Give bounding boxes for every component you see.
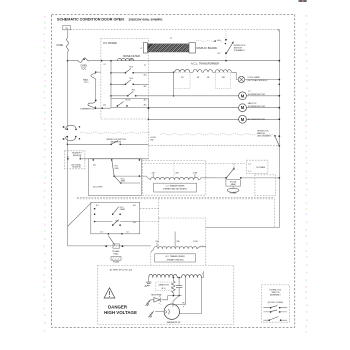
- svg-text:RY4: RY4: [129, 78, 133, 80]
- legend switch row 1: [263, 306, 287, 309]
- svg-text:FAN TOP: FAN TOP: [248, 102, 257, 105]
- svg-text:3: 3: [202, 274, 203, 276]
- svg-text:NOISE FILTER: NOISE FILTER: [123, 55, 140, 58]
- legend switch row 3: [263, 317, 287, 322]
- interlock switch secondary: [257, 130, 280, 146]
- svg-text:(MONITOR): (MONITOR): [111, 142, 122, 144]
- pin labels control box: [103, 64, 146, 106]
- svg-text:(PRIMARY AND SECONDARY): (PRIMARY AND SECONDARY): [163, 188, 187, 191]
- terminal block TB: [63, 26, 71, 30]
- relay RY101 coil: [227, 188, 239, 194]
- dashed box HV unit: [255, 175, 276, 196]
- svg-text:T.T.: T.T.: [248, 91, 252, 93]
- control unit box (noise filter): [101, 38, 149, 119]
- ground magnetron: [148, 311, 164, 317]
- relay contact RY2 row: [111, 67, 149, 74]
- border frame: [52, 14, 295, 327]
- svg-text:RY-1: RY-1: [115, 221, 119, 223]
- triac contact to HV primary: [100, 232, 128, 249]
- svg-text:ASSEMBLY: ASSEMBLY: [270, 294, 281, 297]
- wire rail to lower box: [68, 203, 91, 226]
- wire main line to interlock: [68, 60, 280, 62]
- connector squiggle upper (MAG TCO): [83, 74, 95, 85]
- watermark top mark: [299, 0, 307, 2]
- motor M2 (fan): [148, 102, 280, 112]
- svg-text:A-3: A-3: [144, 85, 147, 88]
- svg-text:RY-2: RY-2: [114, 166, 118, 168]
- svg-text:J-6: J-6: [126, 232, 128, 234]
- svg-text:J-8: J-8: [100, 232, 102, 234]
- svg-text:SW.: SW.: [150, 139, 154, 141]
- HV secondary winding: [149, 271, 204, 277]
- display board label: [197, 41, 217, 50]
- legend switch row 2: [263, 310, 287, 313]
- svg-text:AC S-PWR: AC S-PWR: [93, 185, 103, 188]
- high voltage box: [98, 265, 234, 324]
- svg-text:RY101A: RY101A: [230, 181, 237, 184]
- svg-text:208: 208: [176, 241, 179, 243]
- CH trans box: [246, 160, 268, 173]
- triac label RY-MAG: [112, 250, 120, 256]
- wire right rail: [206, 30, 279, 228]
- connector hooks on left rail: [63, 125, 80, 141]
- relay board upper box: [89, 159, 142, 196]
- cook lamp: [236, 76, 280, 85]
- svg-text:RY-16: RY-16: [125, 99, 130, 101]
- svg-text:STIRRER TCO: STIRRER TCO: [80, 109, 95, 111]
- svg-text:J-4: J-4: [248, 164, 250, 166]
- wire MAG TCO branch: [95, 71, 112, 109]
- svg-text:SCHEMATIC CONDITION DOOR OPEN: SCHEMATIC CONDITION DOOR OPEN: [57, 18, 124, 22]
- relay contact RY4 row: [111, 78, 149, 85]
- svg-text:AC VENT (H.V.) TLK-100: AC VENT (H.V.) TLK-100: [110, 268, 133, 271]
- wire bus in control box: [110, 60, 112, 98]
- svg-text:H.V. TRANSFORMER: H.V. TRANSFORMER: [166, 255, 186, 258]
- fuse F1: [57, 38, 69, 52]
- wire relay to LVT: [140, 176, 150, 180]
- relay box RY-16: [111, 98, 149, 107]
- svg-text:MODELS): MODELS): [72, 167, 81, 169]
- svg-text:A-5: A-5: [144, 99, 147, 102]
- svg-text:B-1: B-1: [96, 205, 99, 207]
- wire dashed drop from control box: [148, 108, 157, 161]
- wire relay to CH trans: [141, 163, 246, 168]
- HV transformer primary box: [151, 199, 206, 265]
- svg-text:RECTIFIER: RECTIFIER: [151, 295, 162, 297]
- svg-text:J-1: J-1: [144, 64, 147, 66]
- svg-text:J-7: J-7: [103, 64, 106, 66]
- svg-text:CH TRANS: CH TRANS: [256, 166, 266, 169]
- svg-text:TCO: TCO: [84, 82, 89, 84]
- wire display board link: [196, 40, 226, 44]
- margin dots: [43, 15, 307, 333]
- wire door linkage right: [160, 134, 274, 136]
- svg-text:OVEN: OVEN: [80, 66, 87, 68]
- relay RY101 box: [226, 180, 241, 189]
- svg-text:(SECONDARY): (SECONDARY): [257, 134, 271, 137]
- danger text: [104, 304, 137, 315]
- svg-text:J-8: J-8: [214, 41, 217, 43]
- svg-text:M: M: [241, 117, 245, 122]
- svg-text:M: M: [241, 105, 245, 110]
- motor M1 (TT stirrer): [149, 91, 281, 100]
- wire L1 top line: [70, 29, 279, 31]
- magnetron V1: [164, 278, 201, 324]
- svg-text:(NOT IN ALL MODELS): (NOT IN ALL MODELS): [247, 79, 267, 82]
- interlock switch primary: [218, 31, 281, 62]
- svg-text:CAPACITOR: CAPACITOR: [158, 284, 169, 287]
- svg-text:STIRRER MOTOR: STIRRER MOTOR: [248, 106, 266, 108]
- connector squiggle lower (cavity TCO): [80, 100, 96, 110]
- svg-text:FUSE: FUSE: [57, 44, 64, 47]
- svg-text:RY-MAIN: RY-MAIN: [230, 192, 238, 195]
- title text: [57, 18, 163, 22]
- svg-text:MAGNETRON: MAGNETRON: [167, 321, 181, 324]
- svg-text:A.C.L. TRANSFORMER: A.C.L. TRANSFORMER: [191, 61, 219, 65]
- svg-text:DANGER: DANGER: [108, 304, 128, 309]
- ribbon cable J7: [140, 38, 197, 53]
- svg-text:BLOWER MOTOR: BLOWER MOTOR: [248, 119, 266, 121]
- relay board lower box: [91, 202, 140, 234]
- node L1-TCO: [67, 60, 69, 62]
- wire left rail: [68, 30, 151, 246]
- svg-text:F: F: [183, 306, 184, 308]
- wire lower box east: [140, 209, 159, 222]
- svg-text:J-2: J-2: [248, 171, 250, 173]
- svg-text:TRIAC: TRIAC: [113, 253, 119, 256]
- svg-text:P.C. BOARD: P.C. BOARD: [103, 42, 117, 45]
- inductor noise filter coil: [118, 58, 134, 60]
- svg-text:RY-5: RY-5: [120, 207, 124, 209]
- triac coil box: [111, 257, 121, 264]
- svg-text:DISPLAY BOARD: DISPLAY BOARD: [197, 46, 217, 50]
- wire node to magnetron: [173, 296, 179, 304]
- svg-text:(PRIMARY): (PRIMARY): [234, 49, 245, 52]
- A.C.L. transformer: [149, 61, 237, 96]
- legend box: [261, 285, 289, 322]
- svg-text:(DOOR CLOSED): (DOOR CLOSED): [268, 302, 284, 304]
- svg-text:COOK LAMP: COOK LAMP: [247, 76, 260, 79]
- svg-text:J2: J2: [140, 48, 142, 50]
- motor M3 (blower): [148, 115, 281, 123]
- svg-text:208: 208: [175, 172, 178, 174]
- warning triangle: [104, 288, 115, 298]
- svg-text:A-4: A-4: [144, 74, 147, 77]
- svg-text:RY-4: RY-4: [121, 178, 125, 180]
- svg-text:COM: COM: [193, 241, 198, 243]
- svg-text:208/230V 60Hz 3/4WIRE: 208/230V 60Hz 3/4WIRE: [129, 18, 163, 22]
- svg-text:(PRIMARY WINDING): (PRIMARY WINDING): [167, 258, 184, 261]
- node HV: [151, 295, 182, 300]
- capacitor label: [156, 282, 172, 291]
- svg-text:STIRRER MOTOR: STIRRER MOTOR: [248, 94, 266, 96]
- thermal cutout OVEN TCO: [78, 58, 89, 70]
- svg-text:A-1: A-1: [103, 103, 106, 106]
- svg-text:(16M): (16M): [114, 168, 119, 170]
- node main/branch: [101, 60, 103, 62]
- capacitor C1: [176, 277, 182, 296]
- svg-text:HIGH VOLTAGE: HIGH VOLTAGE: [104, 310, 137, 315]
- svg-text:A-2: A-2: [133, 204, 136, 207]
- HV transformer label box: [155, 254, 196, 262]
- svg-text:L.V. TRANSFORMER: L.V. TRANSFORMER: [166, 185, 185, 188]
- ground HV winding: [145, 278, 152, 287]
- svg-text:MAG.: MAG.: [83, 78, 89, 81]
- bleeder resistor: [172, 277, 175, 296]
- monitor switch line: [67, 139, 280, 145]
- humidity sensor box: [65, 151, 149, 169]
- LV transformer box: [143, 161, 227, 196]
- wire door linkage left: [80, 132, 150, 133]
- svg-text:(H.V.): (H.V.): [161, 288, 166, 290]
- svg-text:A-1: A-1: [93, 164, 96, 167]
- svg-text:TCO: TCO: [81, 68, 86, 70]
- svg-text:A-6: A-6: [144, 103, 147, 106]
- rectifier diode: [151, 295, 162, 305]
- ground rectifier: [145, 300, 151, 306]
- svg-text:RY2: RY2: [129, 67, 133, 69]
- section divider: [77, 197, 275, 227]
- wire lower right link: [205, 227, 207, 229]
- relay RY101 contact: [225, 164, 280, 179]
- svg-text:RY1: RY1: [132, 90, 136, 92]
- relay contact RY1 row: [111, 90, 149, 97]
- svg-text:M: M: [241, 93, 245, 98]
